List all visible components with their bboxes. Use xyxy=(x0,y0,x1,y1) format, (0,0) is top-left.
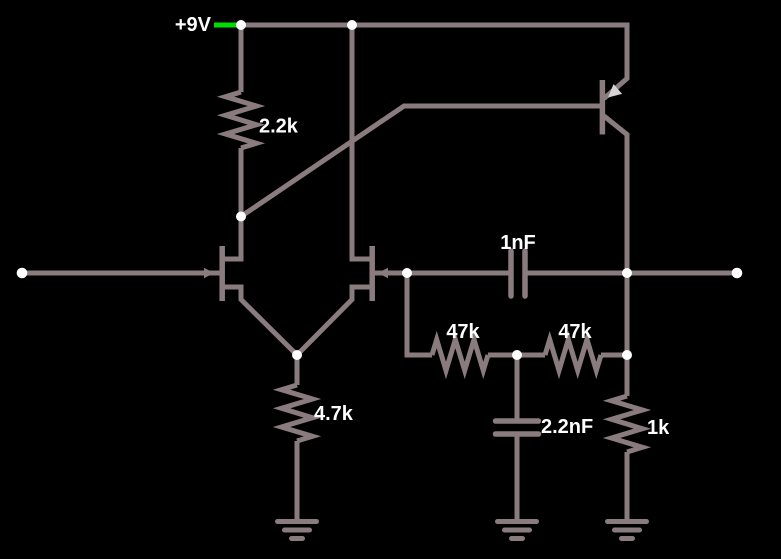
svg-text:2.2nF: 2.2nF xyxy=(541,416,593,438)
wire +9V supply (green) xyxy=(214,23,241,28)
wire gate node down to feedback row xyxy=(407,273,432,355)
wire +9V rail to Q1 emitter xyxy=(241,25,627,99)
node dot gate xyxy=(402,268,412,278)
wire R5 to ground xyxy=(625,452,630,519)
wire mid node down to C2 xyxy=(515,355,520,419)
svg-text:1k: 1k xyxy=(647,417,670,439)
ground G2 xyxy=(498,522,537,539)
wire right node down to R5 xyxy=(625,355,630,396)
capacitor C1 1nF xyxy=(511,251,525,296)
svg-text:47k: 47k xyxy=(558,321,592,343)
ground G1 xyxy=(278,522,317,539)
capacitor C2 2.2nF xyxy=(496,421,539,434)
wire R1 bottom to node xyxy=(239,148,244,217)
transistor Q2 JFET left xyxy=(204,217,297,356)
resistor R1 2.2k xyxy=(226,92,257,148)
svg-text:4.7k: 4.7k xyxy=(314,403,354,425)
resistor R4 47k xyxy=(545,340,601,371)
node dot rail left xyxy=(236,20,246,30)
wire emitter junction down to R2 xyxy=(295,355,300,385)
svg-text:1nF: 1nF xyxy=(500,232,536,254)
wire input lead xyxy=(22,271,220,276)
resistor R5 1k xyxy=(612,396,643,452)
svg-text:47k: 47k xyxy=(446,321,480,343)
ground G3 xyxy=(608,522,647,539)
wire R2 to ground xyxy=(295,441,300,519)
svg-text:2.2k: 2.2k xyxy=(259,116,299,138)
svg-text:+9V: +9V xyxy=(175,14,212,36)
resistor R2 4.7k xyxy=(282,385,313,441)
wire C2 to ground xyxy=(515,437,520,520)
wire output lead xyxy=(627,271,737,276)
wire gate node to C1 xyxy=(407,271,509,276)
wire Q3 gate to node xyxy=(374,271,407,276)
node dot collector xyxy=(622,268,632,278)
node dot R1 bottom xyxy=(236,212,246,222)
terminal output post xyxy=(732,268,743,279)
node dot emitters xyxy=(292,350,302,360)
wire R4 to right node xyxy=(601,353,627,358)
wire R3 to mid node xyxy=(488,353,517,358)
wire left supply vertical xyxy=(239,25,244,92)
transistor Q3 JFET right xyxy=(297,25,388,355)
resistor R3 47k xyxy=(432,340,488,371)
node dot feedback mid xyxy=(512,350,522,360)
wire mid node to R4 xyxy=(517,353,545,358)
node dot rail middle xyxy=(347,20,357,30)
transistor Q1 PNP xyxy=(602,80,627,355)
node dot feedback right xyxy=(622,350,632,360)
wire node to base diagonal xyxy=(241,106,600,217)
terminal input post xyxy=(17,268,28,279)
wire C1 to collector node xyxy=(528,271,628,276)
